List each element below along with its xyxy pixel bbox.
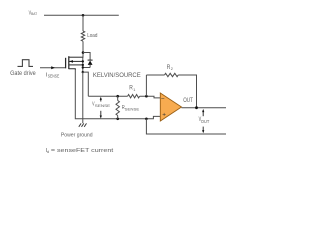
svg-text:Power ground: Power ground (61, 132, 93, 138)
node junction kelvin tap (82, 71, 84, 73)
svg-text:+: + (162, 111, 166, 118)
wire diode top tap (83, 53, 90, 61)
body diode D1 (88, 60, 93, 67)
arrow gate signal (51, 66, 55, 69)
label V_OUT (199, 117, 210, 124)
svg-text:BAT: BAT (31, 12, 38, 16)
node junction source bar (82, 64, 84, 66)
node junction body bar (82, 60, 84, 62)
wire power source to ground (82, 72, 84, 123)
resistor R2 (165, 73, 179, 76)
wire output (182, 107, 227, 109)
label R_SENSE (122, 105, 140, 112)
wire kelvin tap horizontal (83, 72, 89, 96)
node junction Rsense top (116, 95, 119, 98)
wire VBAT top rail (44, 14, 119, 16)
wire drain bar vertical (82, 57, 84, 72)
wire sense rail (83, 116, 161, 118)
resistor R1 (128, 95, 140, 98)
label Power ground (61, 132, 93, 138)
svg-text:−: − (161, 96, 165, 103)
wire sense vertical (75, 70, 83, 119)
wire feedback left vertical (145, 75, 147, 96)
svg-text:2: 2 (171, 67, 173, 71)
wire kelvin rail (88, 95, 127, 97)
wire load top (82, 15, 84, 31)
gate drive pulse symbol (18, 60, 34, 67)
resistor R_SENSE (116, 96, 119, 119)
net label V_BAT (29, 10, 38, 16)
svg-text:1: 1 (133, 88, 135, 92)
svg-text:SENSE: SENSE (48, 73, 60, 78)
wire diode bottom tap (83, 67, 90, 69)
node junction feedback left (145, 95, 148, 98)
node junction diode bottom (82, 66, 84, 68)
wire feedback top right (178, 75, 196, 108)
wire drain vertical (82, 41, 84, 58)
label Load (87, 33, 97, 39)
label KELVIN/SOURCE (93, 72, 141, 79)
wire output reference drop (146, 119, 226, 134)
resistor Load (81, 31, 84, 41)
svg-text:KELVIN/SOURCE: KELVIN/SOURCE (93, 72, 141, 79)
svg-text:Load: Load (87, 33, 97, 39)
wire gate lead (40, 67, 66, 69)
label OUT (183, 97, 193, 104)
wire feedback top left (146, 74, 164, 76)
node junction Rsense bottom (116, 118, 119, 121)
svg-text:= senseFET current: = senseFET current (51, 148, 114, 154)
op-amp U1 (160, 93, 181, 121)
label Gate drive (10, 71, 36, 77)
label R2 (167, 64, 173, 71)
transistor Q1 senseFET (66, 56, 83, 70)
node junction sense rail drop (145, 118, 148, 121)
wire R1 to inverting input (140, 96, 161, 98)
ground symbol power ground (79, 123, 87, 126)
current label I_SENSE (46, 72, 60, 78)
svg-text:SENSE: SENSE (125, 107, 140, 112)
label R1 (129, 85, 135, 92)
annotation V_OUT arrows (202, 109, 204, 133)
svg-text:OUT: OUT (183, 97, 193, 104)
annotation V_SENSE arrows (100, 97, 102, 119)
label V_SENSE (92, 101, 110, 108)
svg-text:OUT: OUT (201, 119, 210, 124)
caption Id = senseFET current (46, 148, 114, 154)
svg-text:Gate drive: Gate drive (10, 71, 36, 77)
node junction output/feedback (195, 106, 198, 109)
node junction drain/diode top (82, 51, 85, 54)
node junction VBAT/load (82, 14, 85, 17)
svg-text:d: d (47, 149, 49, 154)
svg-text:SENSE: SENSE (95, 103, 111, 108)
